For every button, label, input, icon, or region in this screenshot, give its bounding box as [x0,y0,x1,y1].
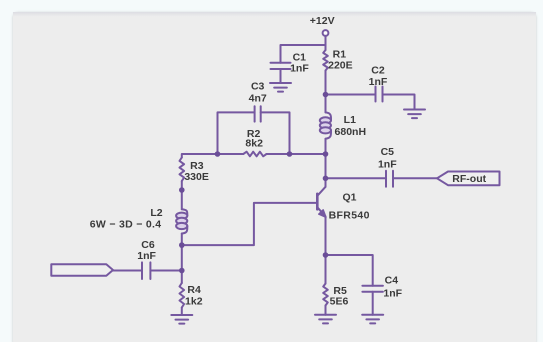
capacitor C2 [376,87,383,102]
svg-text:6W − 3D − 0.4: 6W − 3D − 0.4 [90,218,162,230]
resistor R5 [323,284,328,306]
svg-text:330E: 330E [184,171,209,183]
wire: R2 left to R3 corner [182,154,244,158]
svg-text:C2: C2 [371,65,385,77]
capacitor C5 [386,171,393,187]
wire: R1 to node A [325,71,327,113]
wire: C5 to RF-out flag [393,177,437,179]
svg-text:1nF: 1nF [383,288,402,300]
svg-text:C1: C1 [293,51,307,63]
capacitor C1 [271,63,291,83]
input terminal flag [51,264,113,275]
wire: node F to R5 [325,255,327,284]
inductor L2 [176,209,187,233]
wire: C2 to ground [383,95,415,110]
svg-text:8k2: 8k2 [245,138,263,150]
wire: R4 to ground [181,308,183,316]
resistor R3 [180,158,185,182]
transistor Q1 [317,187,326,218]
junction R3-L2 [179,187,185,193]
resistor R4 [180,283,185,308]
svg-text:Q1: Q1 [342,191,356,203]
svg-text:5E6: 5E6 [330,296,349,308]
wire: C3 branch right vertical [261,112,290,154]
node A junction [323,92,329,98]
svg-text:L1: L1 [344,114,356,126]
junction emitter node [323,252,329,258]
wire: R5 to ground [325,306,327,315]
wire: L1 to collector node [325,139,327,187]
junction input node [179,268,185,274]
svg-text:RF-out: RF-out [452,173,486,185]
wire: C6 to input node [150,270,181,272]
svg-text:R4: R4 [187,284,201,296]
svg-text:L2: L2 [150,207,162,219]
RF-out terminal flag [437,172,500,186]
wire: emitter to node F [325,217,327,256]
svg-text:680nH: 680nH [335,126,367,138]
wire: +12V terminal to R1 [325,36,327,50]
svg-text:1nF: 1nF [290,63,309,75]
svg-text:C3: C3 [251,80,265,92]
wire: base link [182,203,316,245]
svg-text:C4: C4 [385,275,399,287]
wire: collector node to C5 [326,177,387,179]
wire: feedback rail (node B to R3 corner) [267,153,326,155]
svg-text:220E: 220E [328,59,353,71]
junction collector node [323,176,329,182]
inductor L1 [320,112,331,138]
node B junction [323,151,329,157]
resistor R2 [243,152,266,157]
ground (C4) [362,315,383,324]
junction R2 left [215,151,221,157]
wire: L2 to input node [181,234,183,284]
wire: input flag to C6 [113,270,142,272]
ground (C1) [270,83,291,92]
capacitor C4 [362,286,383,315]
junction base node [179,242,185,248]
svg-text:1nF: 1nF [369,76,388,88]
svg-text:C5: C5 [381,146,395,158]
svg-text:1k2: 1k2 [185,296,203,308]
svg-text:+12V: +12V [310,15,335,27]
power terminal +12V [323,30,329,36]
junction R2 right [287,151,293,157]
ground (C2) [404,110,425,119]
svg-text:1nF: 1nF [378,158,397,170]
svg-text:R3: R3 [190,160,204,172]
ground (R5) [315,315,336,324]
svg-text:BFR540: BFR540 [329,210,370,222]
wire: node A to C2 [326,94,376,96]
capacitor C6 [142,262,150,279]
wire: C3 branch left vertical [218,112,255,154]
svg-text:1nF: 1nF [137,250,156,262]
svg-text:4n7: 4n7 [249,93,267,105]
wire: node F to C4 [326,255,373,286]
ground (R4) [171,315,192,324]
capacitor C3 [255,106,261,121]
resistor R1 [323,50,328,71]
wire: top rail to C1 [281,45,326,63]
wire: R3 to L2 [181,181,183,209]
